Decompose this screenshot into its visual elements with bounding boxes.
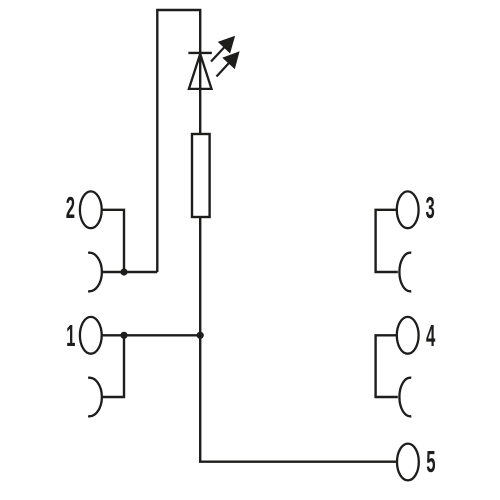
- LED light arrow 2 head: [224, 53, 239, 68]
- LED light arrow 1 head: [219, 37, 234, 52]
- wire terminal 3 to socket arc 3: [376, 210, 398, 272]
- socket arc 1: [88, 378, 102, 417]
- junction node B: [120, 268, 127, 275]
- svg-text:3: 3: [425, 192, 434, 225]
- junction node A: [120, 332, 127, 339]
- svg-text:2: 2: [66, 192, 75, 225]
- svg-text:4: 4: [426, 320, 436, 353]
- terminal circle 3: [397, 191, 419, 228]
- svg-text:1: 1: [66, 320, 75, 353]
- wire resistor bottom down to terminal 5 row: [200, 217, 397, 462]
- wire terminal 1 to node at resistor line: [102, 334, 201, 336]
- resistor R1: [192, 134, 210, 217]
- wire terminal 4 to socket arc 4: [376, 335, 398, 397]
- svg-text:5: 5: [426, 446, 435, 479]
- terminal circle 4: [397, 317, 419, 354]
- terminal circle 5: [397, 444, 419, 481]
- wire socket arc 2 through node B to riser: [102, 271, 157, 273]
- LED light arrow 1 shaft: [211, 46, 226, 62]
- socket arc 2: [88, 253, 102, 292]
- socket arc 3: [399, 253, 411, 292]
- socket arc 4: [399, 378, 411, 417]
- junction node C: [197, 332, 204, 339]
- LED D1 cathode bar: [188, 52, 212, 54]
- wire top loop from node at (157,272) up over to LED branch: [157, 10, 200, 272]
- terminal circle 2: [80, 191, 102, 228]
- LED D1 triangle: [189, 54, 212, 89]
- terminal circle 1: [80, 317, 102, 354]
- LED light arrow 2 shaft: [217, 62, 231, 77]
- wire terminal 2 down to node B: [102, 210, 125, 272]
- wire branch from node A down to socket arc 1: [102, 335, 124, 397]
